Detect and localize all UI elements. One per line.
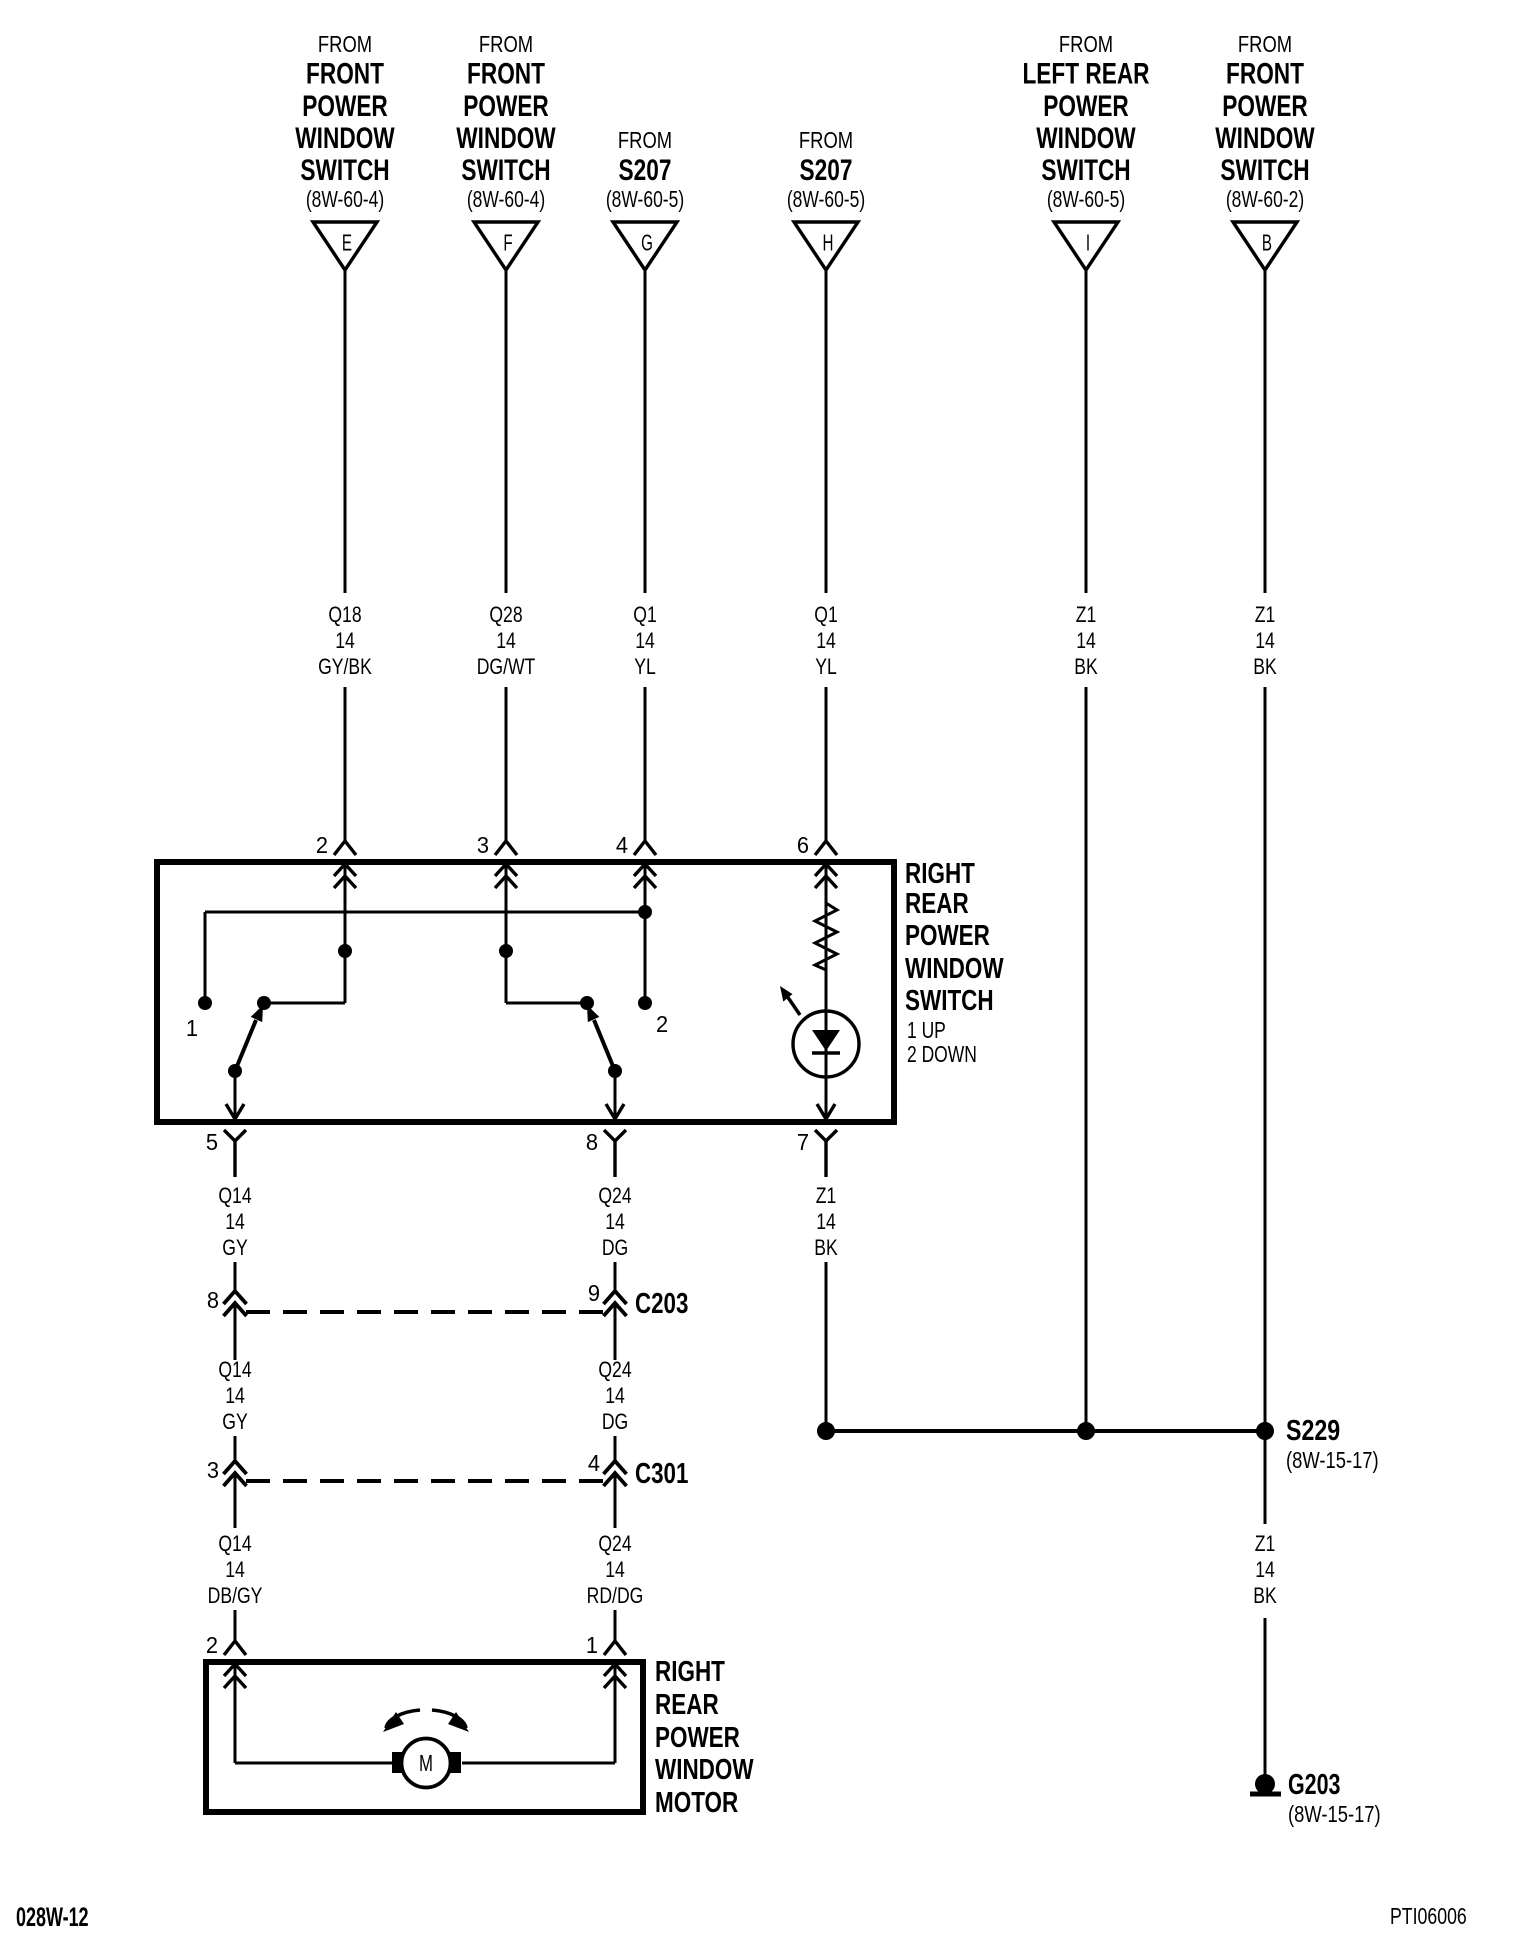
svg-text:S207: S207 [619,153,672,187]
connector triangle B [1233,222,1297,270]
wire label Q14 14 GY (middle) [218,1358,251,1434]
wire label Q24 14 RD/DG [587,1532,644,1608]
svg-text:BK: BK [1253,1584,1277,1608]
internal rail from contact 1 to pin 4 wire [205,912,645,1003]
svg-text:REAR: REAR [655,1689,719,1720]
svg-text:(8W-60-4): (8W-60-4) [306,188,384,213]
motor internal wires [235,1664,615,1763]
svg-text:FROM: FROM [1059,32,1113,57]
node B header: FROM FRONT POWER WINDOW SWITCH (8W-60-2) [1215,32,1315,213]
node G header: FROM S207 (8W-60-5) [606,128,684,213]
svg-text:14: 14 [335,629,355,653]
internal wire from pin 4 down to contact 2 [644,864,647,1003]
svg-text:Z1: Z1 [816,1184,837,1208]
wire from connector F (upper) [505,270,508,593]
svg-text:Q24: Q24 [598,1532,631,1556]
wire Q24 into motor [614,1610,617,1641]
pin 5 female connector below box [206,1129,246,1177]
wire Q14 below C203 [234,1304,237,1360]
svg-text:4: 4 [616,832,628,858]
wire Q24 into C301 [614,1436,617,1461]
svg-text:GY: GY [222,1236,247,1260]
svg-text:2: 2 [206,1632,218,1658]
wire Q14 into motor [234,1610,237,1641]
node I header: FROM LEFT REAR POWER WINDOW SWITCH (8W-60-5) [1022,32,1149,213]
svg-text:FROM: FROM [799,128,853,153]
svg-text:MOTOR: MOTOR [655,1787,738,1818]
svg-text:Q14: Q14 [218,1532,251,1556]
motor box label RIGHT REAR POWER WINDOW MOTOR [655,1656,754,1818]
svg-text:WINDOW: WINDOW [1215,121,1315,155]
wire Q1-G lower segment [644,687,647,841]
pin 3 entry chevrons inside box [495,864,517,888]
splice S229 [817,1413,1379,1473]
svg-text:1: 1 [186,1015,198,1041]
svg-text:(8W-15-17): (8W-15-17) [1286,1448,1379,1473]
pin 7 female connector below box [797,1129,837,1177]
wire Q14 into C301 [234,1436,237,1461]
illumination lamp branch from pin 6 [825,864,828,1119]
svg-text:POWER: POWER [302,89,388,123]
pin 3 arrow at switch box top [477,832,517,858]
node H header: FROM S207 (8W-60-5) [787,128,865,213]
wire Q28 lower segment [505,687,508,841]
svg-text:FRONT: FRONT [467,56,545,90]
connector C203 [207,1280,689,1319]
svg-text:14: 14 [605,1384,625,1408]
right rear power window switch box outline [157,862,894,1122]
svg-text:YL: YL [634,655,656,679]
connector triangle H [794,222,858,270]
wire from connector I (upper) [1085,270,1088,593]
svg-text:WINDOW: WINDOW [295,121,395,155]
svg-text:H: H [823,230,834,256]
right rear power window motor box outline [206,1662,643,1812]
pin 6 entry chevrons inside box [815,864,837,888]
ground G203 [1250,1769,1381,1828]
wire Q1-H lower segment [825,687,828,841]
svg-text:5: 5 [206,1129,218,1155]
svg-text:C203: C203 [635,1288,688,1319]
svg-text:FRONT: FRONT [1226,56,1304,90]
svg-text:(8W-60-5): (8W-60-5) [1047,188,1125,213]
svg-text:14: 14 [225,1210,245,1234]
svg-text:B: B [1262,230,1272,256]
svg-text:DG: DG [602,1236,628,1260]
wire label Q18 14 GY/BK [318,603,372,679]
svg-text:4: 4 [588,1450,600,1476]
svg-text:BK: BK [814,1236,838,1260]
svg-text:FRONT: FRONT [306,56,384,90]
svg-text:S229: S229 [1286,1413,1340,1446]
wire Q24 below C301 [614,1474,617,1528]
svg-text:3: 3 [477,832,489,858]
svg-text:028W-12: 028W-12 [16,1901,89,1932]
junction dot rail/pin4 [638,905,652,919]
svg-text:POWER: POWER [1043,89,1129,123]
svg-text:14: 14 [1255,1558,1275,1582]
svg-text:POWER: POWER [905,920,990,951]
svg-text:Q28: Q28 [489,603,522,627]
node F header: FROM FRONT POWER WINDOW SWITCH (8W-60-4) [456,32,556,213]
wire label Z1 14 BK (pin 7) [814,1184,838,1260]
wire from connector B (upper) [1264,270,1267,593]
svg-text:14: 14 [225,1384,245,1408]
pin 2 arrow at switch box top [316,832,356,858]
left switch arm (pole 5) [228,1005,263,1119]
svg-text:DB/GY: DB/GY [208,1584,263,1608]
svg-text:Q14: Q14 [218,1184,251,1208]
svg-text:G203: G203 [1288,1769,1340,1801]
svg-text:POWER: POWER [655,1722,740,1753]
wire Z1 below S229 [1264,1431,1267,1524]
up-contact dot (left pole) [257,996,271,1010]
svg-text:2: 2 [656,1011,668,1037]
svg-text:DG: DG [602,1410,628,1434]
wire Q24 into C203 [614,1262,617,1291]
svg-text:(8W-60-5): (8W-60-5) [787,188,865,213]
wire Q24 below C203 [614,1304,617,1360]
wire label Q24 14 DG (upper) [598,1184,631,1260]
connector triangle F [474,222,538,270]
svg-text:BK: BK [1074,655,1098,679]
pin 6 arrow at switch box top [797,832,837,858]
svg-text:(8W-60-4): (8W-60-4) [467,188,545,213]
svg-text:Q18: Q18 [328,603,361,627]
svg-text:C301: C301 [635,1458,688,1489]
svg-text:POWER: POWER [1222,89,1308,123]
svg-text:E: E [342,230,352,256]
node E header: FROM FRONT POWER WINDOW SWITCH (8W-60-4) [295,32,395,213]
wire label Q1 14 YL (H) [814,603,837,679]
svg-text:RIGHT: RIGHT [905,858,975,889]
wire Q18 lower segment [344,687,347,841]
svg-text:Q14: Q14 [218,1358,251,1382]
svg-text:LEFT REAR: LEFT REAR [1022,56,1149,90]
svg-text:YL: YL [815,655,837,679]
pin 4 entry chevrons inside box [634,864,656,888]
svg-text:14: 14 [1255,629,1275,653]
contact 1 dot [198,996,212,1010]
svg-text:WINDOW: WINDOW [456,121,556,155]
LED diode triangle [812,1030,840,1051]
motor pin 2 arrow [206,1632,246,1658]
svg-text:FROM: FROM [318,32,372,57]
wire from connector G (upper) [644,270,647,593]
wire label Z1 14 BK (B) [1253,603,1277,679]
motor M1 symbol [392,1739,461,1788]
svg-text:RD/DG: RD/DG [587,1584,644,1608]
switch box label RIGHT REAR POWER WINDOW SWITCH 1 UP 2 DOWN [905,858,1004,1067]
contact dot (right pole) [580,996,594,1010]
pin 5 exit arrow at box bottom [226,1104,244,1119]
wire Q14 below C301 [234,1474,237,1528]
svg-text:2 DOWN: 2 DOWN [907,1043,977,1068]
svg-text:WINDOW: WINDOW [1036,121,1136,155]
svg-text:FROM: FROM [479,32,533,57]
right switch arm (pole 8) [587,1005,622,1119]
svg-text:14: 14 [816,1210,836,1234]
motor pin 1 arrow [586,1632,626,1658]
wire label Z1 14 BK (I) [1074,603,1098,679]
LED light arrow [780,986,800,1015]
svg-text:SWITCH: SWITCH [300,153,389,187]
svg-text:9: 9 [588,1280,600,1306]
svg-text:PTI06006: PTI06006 [1390,1904,1467,1930]
svg-text:SWITCH: SWITCH [1041,153,1130,187]
svg-text:7: 7 [797,1129,809,1155]
svg-text:SWITCH: SWITCH [1220,153,1309,187]
svg-text:I: I [1086,230,1090,256]
svg-text:14: 14 [1076,629,1096,653]
svg-text:F: F [503,230,512,256]
svg-text:WINDOW: WINDOW [655,1754,754,1785]
svg-text:SWITCH: SWITCH [461,153,550,187]
svg-text:6: 6 [797,832,809,858]
svg-text:FROM: FROM [1238,32,1292,57]
connector triangle E [313,222,377,270]
svg-text:Q1: Q1 [633,603,656,627]
svg-text:14: 14 [816,629,836,653]
svg-text:8: 8 [586,1129,598,1155]
svg-text:SWITCH: SWITCH [905,985,994,1016]
motor rotation arrow [383,1710,469,1732]
pin 8 female connector below box [586,1129,626,1177]
wire label Z1 14 BK (below S229) [1253,1532,1277,1608]
contact dot on pin 2 branch [338,944,352,958]
svg-text:S207: S207 [800,153,853,187]
svg-text:14: 14 [635,629,655,653]
illumination LED circle [793,1011,859,1077]
pin 8 exit arrow at box bottom [606,1104,624,1119]
svg-text:GY/BK: GY/BK [318,655,372,679]
wire Z1-I to splice S229 [1085,687,1088,1431]
svg-text:WINDOW: WINDOW [905,953,1004,984]
svg-text:14: 14 [225,1558,245,1582]
contact 2 dot [638,996,652,1010]
svg-text:(8W-60-5): (8W-60-5) [606,188,684,213]
wire label Q28 14 DG/WT [477,603,536,679]
svg-text:Z1: Z1 [1076,603,1097,627]
wire Q14 into C203 [234,1262,237,1291]
svg-text:Q24: Q24 [598,1358,631,1382]
svg-text:1: 1 [586,1632,598,1658]
wire from connector H (upper) [825,270,828,593]
svg-text:BK: BK [1253,655,1277,679]
svg-text:(8W-15-17): (8W-15-17) [1288,1802,1381,1827]
svg-text:14: 14 [605,1558,625,1582]
svg-text:3: 3 [207,1457,219,1483]
connector triangle G [613,222,677,270]
wire label Q14 14 GY (upper) [218,1184,251,1260]
svg-text:8: 8 [207,1287,219,1313]
pin 2 entry chevrons inside box [334,864,356,888]
svg-text:1 UP: 1 UP [907,1019,946,1044]
pin 7 exit arrow at box bottom [817,1104,835,1119]
internal wire from pin 2 down to up-contact [264,864,345,1003]
svg-text:2: 2 [316,832,328,858]
svg-text:Z1: Z1 [1255,603,1276,627]
internal wire from pin 3 down to contact [506,864,587,1003]
svg-text:14: 14 [605,1210,625,1234]
svg-text:Z1: Z1 [1255,1532,1276,1556]
contact dot on pin 3 branch [499,944,513,958]
wire label Q24 14 DG (middle) [598,1358,631,1434]
svg-text:FROM: FROM [618,128,672,153]
svg-text:14: 14 [496,629,516,653]
connector C301 [207,1450,689,1489]
wire Z1 from pin 7 to splice S229 [825,1262,828,1431]
svg-text:RIGHT: RIGHT [655,1656,725,1687]
svg-text:Q1: Q1 [814,603,837,627]
svg-text:POWER: POWER [463,89,549,123]
svg-text:DG/WT: DG/WT [477,655,536,679]
LED cathode bar [812,1051,840,1054]
svg-text:REAR: REAR [905,888,969,919]
wire Z1 to ground G203 [1264,1618,1267,1776]
wire label Q14 14 DB/GY [208,1532,263,1608]
wire from connector E (upper) [344,270,347,593]
pin 4 arrow at switch box top [616,832,656,858]
motor pin 1 entry chevrons inside box [604,1664,626,1688]
svg-text:GY: GY [222,1410,247,1434]
motor pin 2 entry chevrons inside box [224,1664,246,1688]
svg-text:Q24: Q24 [598,1184,631,1208]
connector triangle I [1054,222,1118,270]
resistor in lamp branch [815,903,837,970]
svg-text:G: G [641,230,653,256]
svg-text:(8W-60-2): (8W-60-2) [1226,188,1304,213]
wire Z1-B to splice S229 [1264,687,1267,1431]
svg-text:M: M [419,1752,433,1777]
wire label Q1 14 YL (G) [633,603,656,679]
